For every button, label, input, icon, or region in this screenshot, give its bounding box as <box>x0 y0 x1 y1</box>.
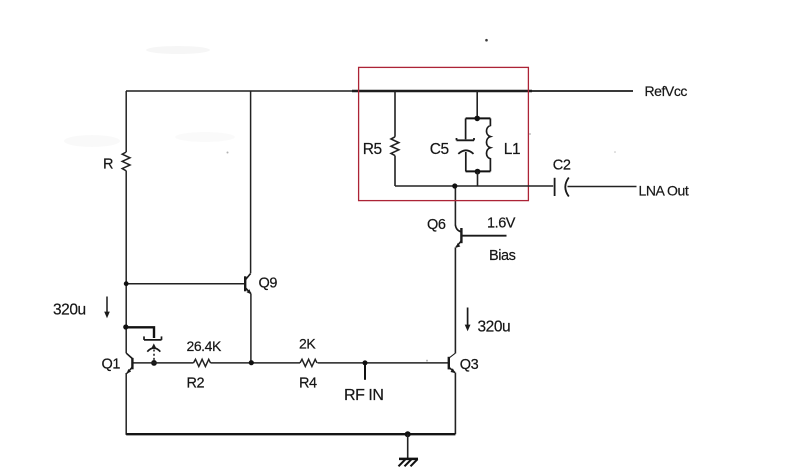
svg-text:Q6: Q6 <box>427 217 446 233</box>
capacitor C2 <box>555 178 569 197</box>
wire: thick L to trimmer cap <box>126 327 154 338</box>
scan smudges (decorative) <box>64 46 616 362</box>
wire: base row (Q1 to Q3) <box>133 362 449 364</box>
current arrow (right) <box>467 308 469 327</box>
transistor Q9 <box>245 274 251 294</box>
svg-text:R5: R5 <box>363 141 382 158</box>
wire: Q3 collector vertical (to Q6 emitter) <box>454 247 456 353</box>
resistor R (zigzag on left bus) <box>122 152 130 171</box>
capacitor (trimmer) curved plate with arrow <box>147 348 160 352</box>
wire: RefVcc top rail <box>126 90 633 92</box>
wire: left vertical bus <box>125 91 127 435</box>
wire: output line (R5 bottom to C2) <box>395 185 553 187</box>
svg-text:320u: 320u <box>53 302 86 319</box>
node: junction dot left bus / trimmer branch <box>123 324 128 329</box>
scan speck <box>485 39 488 42</box>
svg-text:C2: C2 <box>553 158 571 174</box>
transistor Q1 <box>126 353 132 373</box>
node: junction dot base row / trimmer <box>151 360 157 366</box>
svg-text:Q1: Q1 <box>102 357 121 373</box>
svg-text:RF IN: RF IN <box>344 387 384 404</box>
resistor R5 zigzag <box>391 137 399 156</box>
transistor Q3 <box>449 353 456 372</box>
resistor R4 zigzag <box>300 359 317 366</box>
resistor R2 zigzag <box>194 359 211 366</box>
node: junction dot left bus / Q9 base <box>124 281 129 286</box>
wire: RF IN stub <box>364 363 366 380</box>
node: bottom of tank <box>475 169 481 175</box>
svg-text:26.4K: 26.4K <box>187 338 222 354</box>
wire: tank top bar <box>466 117 491 119</box>
wire: tank stem to output line <box>477 172 479 186</box>
svg-text:LNA Out: LNA Out <box>639 183 689 199</box>
wire: dotted lead to base row <box>153 350 155 361</box>
current arrow (left) <box>106 297 108 314</box>
capacitor C5 curved plate <box>458 150 473 154</box>
node: ground junction dot <box>405 431 411 437</box>
wire: C5/L1 stem from rail <box>476 91 478 117</box>
svg-text:320u: 320u <box>478 319 511 336</box>
wire: Q6 base line to Bias <box>461 235 506 237</box>
svg-text:R: R <box>103 157 113 173</box>
ground <box>399 459 419 466</box>
wire: bottom rail <box>126 433 455 435</box>
svg-text:2K: 2K <box>299 335 316 351</box>
node: top of tank <box>474 116 480 122</box>
node: junction dot Q9 emitter / base row <box>249 360 254 365</box>
svg-text:C5: C5 <box>430 141 449 158</box>
wire: C5 upper lead <box>465 118 467 139</box>
wire: Q9 base line <box>126 283 245 285</box>
transistor Q6 <box>454 186 456 225</box>
capacitor (trimmer) top plate <box>144 336 162 340</box>
wire: tank bottom bar <box>466 170 491 172</box>
capacitor C5 top plate <box>457 138 475 140</box>
resistor R5 branch <box>394 91 396 186</box>
red highlight box <box>359 67 529 200</box>
wire: Q3 emitter to bottom rail <box>454 373 456 435</box>
wire: ground stub <box>407 434 409 459</box>
node: RF IN junction dot <box>363 360 368 365</box>
svg-text:RefVcc: RefVcc <box>645 83 688 99</box>
svg-text:Bias: Bias <box>489 248 516 264</box>
wire: C2 to LNA Out <box>568 186 637 188</box>
svg-text:L1: L1 <box>504 141 520 158</box>
svg-text:1.6V: 1.6V <box>487 216 516 232</box>
svg-text:Q9: Q9 <box>259 276 278 292</box>
svg-text:R4: R4 <box>299 376 317 392</box>
svg-text:R2: R2 <box>187 376 205 392</box>
node: junction dot output line / Q6 collector <box>452 183 457 188</box>
svg-text:Q3: Q3 <box>460 357 479 373</box>
wire: center vertical (to Q9 collector) <box>250 91 252 273</box>
wire: Q9 emitter down to base row <box>250 294 252 363</box>
wire: C5 lower lead <box>465 152 467 171</box>
inductor L1 <box>487 118 491 171</box>
